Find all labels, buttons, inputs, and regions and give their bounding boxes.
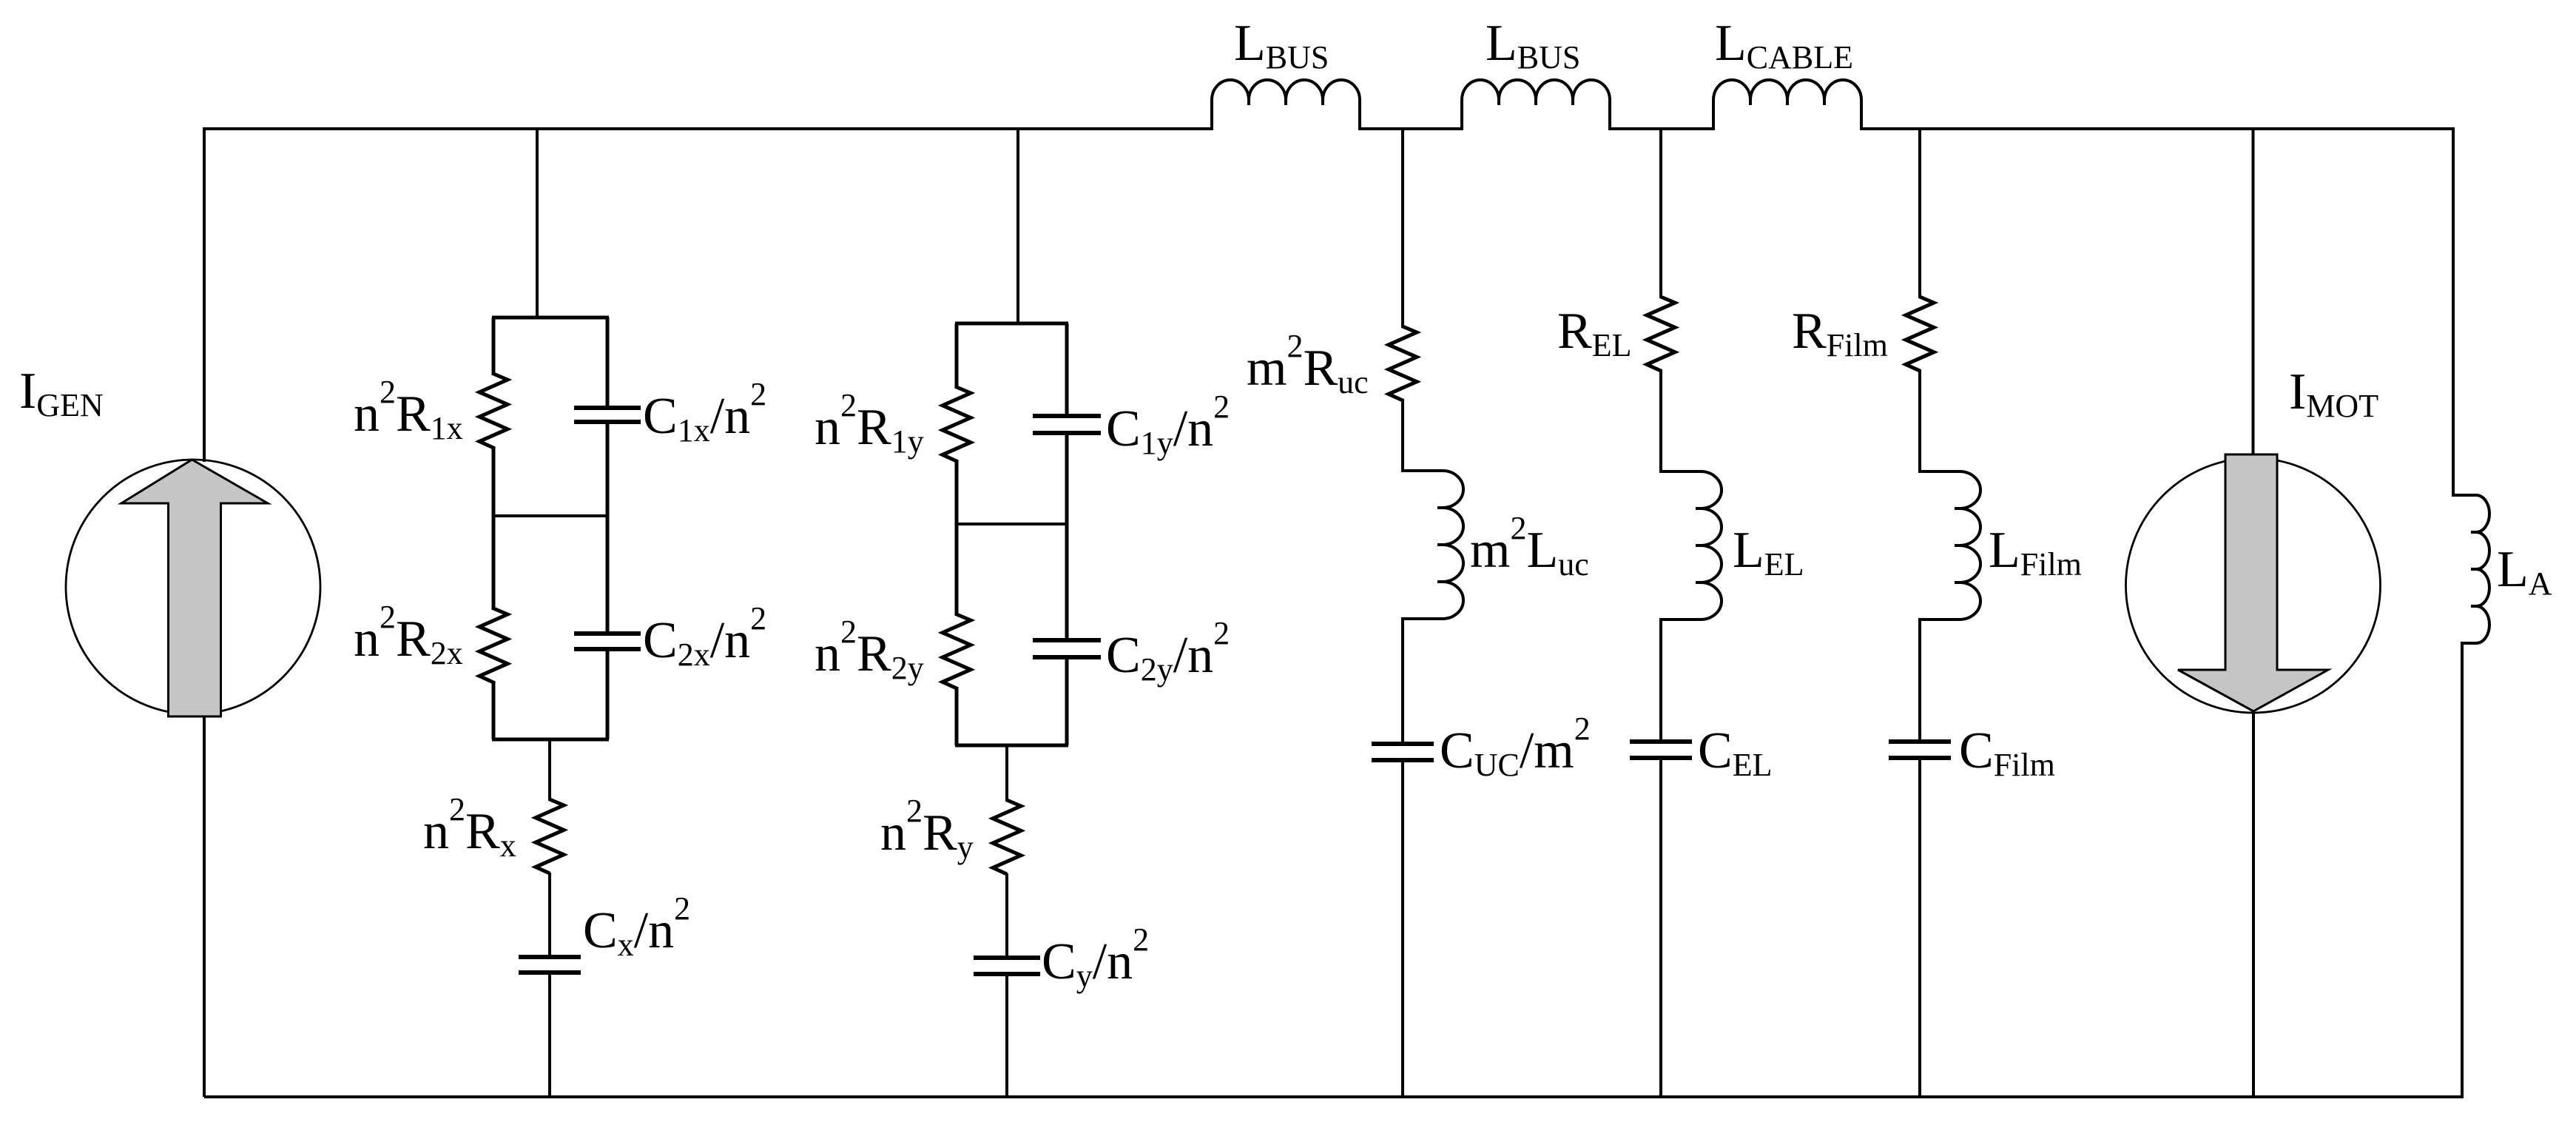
inductor LEL bbox=[1661, 471, 1722, 619]
wire between REL and LEL bbox=[1659, 369, 1662, 473]
wire x-chain below box bbox=[548, 739, 551, 801]
capacitor Cx bbox=[519, 955, 581, 959]
wire x-box right lower lead bbox=[606, 649, 610, 739]
wire CEL to bottom rail bbox=[1659, 758, 1662, 1097]
wire top rail right segment bbox=[1860, 127, 2455, 130]
resistor n2Rx bbox=[536, 799, 564, 873]
wire y-box right between mid and C2y bbox=[1065, 524, 1069, 640]
current source IGEN arrow bbox=[121, 460, 268, 716]
current source IGEN circle bbox=[66, 460, 320, 714]
wire feed to IMOT bbox=[2252, 129, 2255, 459]
wire y-chain below box bbox=[1005, 745, 1008, 802]
wire between m2Ruc and m2Luc bbox=[1401, 399, 1404, 472]
wire x-box right between mid and C2x bbox=[606, 516, 610, 634]
inductor LBUS (left) bbox=[1212, 80, 1360, 129]
wire CUC to bottom rail bbox=[1401, 760, 1404, 1097]
wire LFilm lower lead bbox=[1918, 618, 1921, 742]
wire right rail upper bbox=[2452, 127, 2455, 497]
wire y-box right lower lead bbox=[1065, 657, 1069, 745]
inductor LFilm bbox=[1920, 471, 1980, 619]
wire x-box left between mid and R2x bbox=[492, 516, 496, 610]
wire y-box left between R1y and mid bbox=[955, 460, 959, 524]
wire x-chain Cx to bottom rail bbox=[548, 973, 551, 1097]
resistor n2Ry bbox=[993, 800, 1021, 874]
wire x-box right between C1x and mid bbox=[606, 422, 610, 516]
wire left rail lower bbox=[203, 712, 206, 1097]
wire feed to x-network bbox=[536, 129, 539, 318]
wire y-box left upper lead bbox=[955, 323, 959, 389]
node x-network box middle edge bbox=[493, 514, 607, 517]
capacitor C2y bbox=[1033, 638, 1101, 642]
inductor LA bbox=[2453, 495, 2489, 643]
wire branch m2Ruc top lead bbox=[1401, 129, 1404, 328]
wire x-box left between R1x and mid bbox=[492, 446, 496, 516]
wire CFilm to bottom rail bbox=[1918, 758, 1921, 1097]
capacitor Cy bbox=[974, 956, 1040, 960]
resistor n2R2y bbox=[943, 614, 971, 688]
wire IMOT to bottom rail bbox=[2252, 711, 2255, 1097]
wire branch RFilm top lead bbox=[1918, 129, 1921, 298]
wire x-box left upper lead bbox=[492, 318, 496, 375]
inductor LCABLE bbox=[1713, 80, 1861, 129]
resistor n2R1y bbox=[943, 387, 971, 461]
node y-network box top edge bbox=[955, 322, 1068, 326]
wire top rail between LBUS coils bbox=[1358, 127, 1463, 130]
wire top rail left segment bbox=[204, 127, 1213, 130]
wire x-box left lower lead bbox=[492, 681, 496, 739]
wire x-chain between Rx and Cx bbox=[548, 873, 551, 957]
wire top rail between LBUS and LCABLE bbox=[1608, 127, 1715, 130]
wire bottom rail bbox=[204, 1095, 2464, 1098]
wire y-box right upper lead bbox=[1065, 323, 1069, 416]
inductor LBUS (right) bbox=[1462, 80, 1610, 129]
wire between RFilm and LFilm bbox=[1918, 369, 1921, 473]
current source IMOT circle bbox=[2126, 458, 2381, 713]
wire left rail upper bbox=[203, 127, 206, 462]
wire right rail lower bbox=[2461, 642, 2464, 1097]
capacitor CFilm bbox=[1889, 739, 1951, 744]
wire x-box right upper lead bbox=[606, 318, 610, 408]
wire y-box left between mid and R2y bbox=[955, 524, 959, 616]
wire branch REL top lead bbox=[1659, 129, 1662, 298]
wire y-box left lower lead bbox=[955, 687, 959, 745]
wire LEL lower lead bbox=[1659, 618, 1662, 742]
wire y-chain Cy to bottom rail bbox=[1005, 974, 1008, 1097]
node y-network box bottom edge bbox=[955, 744, 1068, 748]
node x-network box bottom edge bbox=[492, 738, 609, 742]
resistor n2R1x bbox=[479, 374, 508, 448]
capacitor C2x bbox=[574, 631, 641, 636]
wire feed to y-network bbox=[1016, 129, 1019, 323]
capacitor CUC bbox=[1372, 742, 1434, 746]
inductor m2Luc bbox=[1403, 471, 1463, 619]
wire y-chain between Ry and Cy bbox=[1005, 873, 1008, 958]
wire m2Luc lower lead bbox=[1401, 617, 1404, 744]
capacitor C1x bbox=[574, 406, 641, 410]
current source IMOT arrow bbox=[2178, 454, 2328, 711]
capacitor C1y bbox=[1033, 414, 1101, 418]
resistor m2Ruc bbox=[1389, 326, 1417, 400]
resistor n2R2x bbox=[479, 608, 508, 682]
wire y-box right between C1y and mid bbox=[1065, 433, 1069, 524]
node x-network box top edge bbox=[492, 316, 609, 320]
node y-network box middle edge bbox=[957, 523, 1067, 525]
capacitor CEL bbox=[1630, 739, 1692, 744]
resistor RFilm bbox=[1906, 297, 1934, 371]
resistor REL bbox=[1647, 297, 1675, 371]
